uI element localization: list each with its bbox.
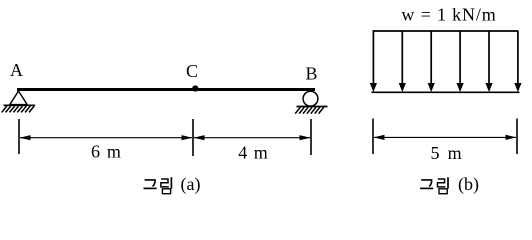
svg-text:(a): (a): [181, 174, 201, 195]
roller support at B: [303, 91, 318, 106]
dimension tick at B: [310, 119, 312, 155]
그 : ㄱ stroke: [145, 180, 155, 187]
load arrow 4: [459, 31, 461, 84]
svg-text:(b): (b): [458, 174, 479, 195]
svg-text:4 m: 4 m: [238, 143, 269, 163]
dimension tick left (b): [372, 119, 374, 155]
svg-text:A: A: [10, 60, 23, 80]
load top line: [373, 30, 519, 32]
beam A-B: [17, 88, 315, 91]
caption 그림 (b) : hangul reused: [420, 177, 448, 194]
dimension tick at A: [18, 119, 20, 154]
load base line: [372, 91, 520, 93]
hatching at B: [295, 107, 324, 113]
load arrow 1: [372, 31, 374, 84]
svg-text:6 m: 6 m: [91, 142, 122, 162]
림 : ㅣ stroke: [170, 177, 172, 188]
load arrow 3: [430, 31, 432, 84]
load arrow 6: [517, 31, 519, 84]
load arrow 2: [401, 31, 403, 84]
dimension tick at C: [192, 119, 194, 156]
load arrow 5: [488, 31, 490, 84]
caption 그림 (a) : hangul drawn as paths: [144, 177, 172, 194]
pin support at A: [10, 91, 27, 105]
svg-text:5 m: 5 m: [431, 143, 464, 163]
svg-text:C: C: [186, 61, 198, 81]
dimension line C-B: [194, 137, 310, 139]
node C junction dot: [192, 85, 198, 91]
림 : ㅁ stroke: [162, 189, 170, 194]
림 : ㄹ stroke: [161, 179, 169, 187]
dimension line 5 m: [374, 136, 516, 138]
ground line at B: [297, 106, 328, 108]
ground line at A: [4, 104, 36, 106]
svg-text:B: B: [305, 64, 317, 84]
hatching at A: [2, 106, 35, 112]
그 : ㅡ stroke: [144, 187, 157, 189]
dimension tick right (b): [516, 119, 518, 155]
dimension line A-C: [20, 137, 192, 139]
svg-text:w = 1 kN/m: w = 1 kN/m: [401, 5, 496, 25]
